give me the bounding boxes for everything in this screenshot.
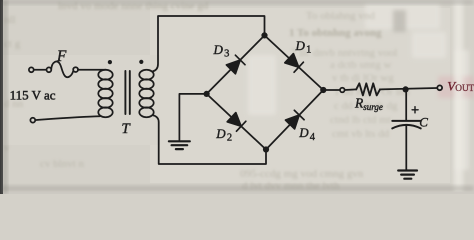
- wire bottom terminal to primary: [35, 116, 100, 120]
- diode D4: [286, 110, 305, 129]
- bleed-through text texture: [248, 3, 469, 170]
- wire bridge right node to terminal: [323, 89, 340, 91]
- plus sign: [412, 107, 418, 113]
- input terminal bottom: [30, 118, 35, 123]
- left dark scan edge: [0, 0, 3, 194]
- svg-text:095-ccdg mg vod cmng gvn: 095-ccdg mg vod cmng gvn: [240, 168, 364, 180]
- fuse F right terminal: [73, 67, 78, 72]
- bridge wires: [207, 35, 324, 149]
- output terminal Vout: [437, 85, 442, 90]
- wire bridge left node to ground: [179, 94, 204, 140]
- wire to resistor: [345, 88, 357, 91]
- ground (capacitor): [398, 171, 417, 179]
- phasing dot primary: [108, 60, 112, 64]
- transformer core: [125, 71, 129, 114]
- pink smudge near Vout: [438, 76, 474, 98]
- transformer T secondary winding: [139, 70, 153, 117]
- node top (bridge AC input): [261, 32, 267, 38]
- wire secondary bottom to bridge bottom: [153, 115, 267, 164]
- right light band: [454, 0, 463, 194]
- bottom edge band: [0, 186, 474, 191]
- svg-text:ctnd lb ctd mt: ctnd lb ctd mt: [330, 114, 391, 126]
- svg-text:v tb di lOr wg: v tb di lOr wg: [332, 72, 394, 84]
- fuse F left terminal: [47, 67, 52, 72]
- svg-text:C: C: [419, 114, 428, 129]
- top edge band: [0, 0, 474, 4]
- node right (bridge positive): [320, 87, 326, 93]
- diode D3: [226, 55, 245, 74]
- capacitor C top plate: [392, 120, 420, 122]
- wire fuse to transformer primary: [78, 69, 106, 71]
- svg-text:cv blnvt n: cv blnvt n: [40, 158, 84, 170]
- diode D2: [227, 113, 246, 132]
- diode D1: [285, 54, 304, 73]
- wire secondary top to bridge top: [153, 16, 265, 72]
- capacitor top lead: [405, 89, 407, 120]
- ground (bridge): [169, 141, 190, 149]
- svg-text:115 V ac: 115 V ac: [10, 87, 56, 102]
- wire: [34, 69, 46, 71]
- terminal circle before Rsurge: [340, 88, 345, 93]
- svg-text:F: F: [56, 48, 67, 65]
- resistor Rsurge: [356, 83, 380, 95]
- capacitor bottom lead: [405, 126, 407, 170]
- node at capacitor junction: [403, 86, 409, 92]
- node left (bridge negative): [204, 91, 210, 97]
- capacitor C curved plate: [392, 125, 420, 129]
- phasing dot secondary: [139, 60, 143, 64]
- svg-text:a dctb smtg w: a dctb smtg w: [330, 59, 391, 71]
- wire resistor to output: [380, 88, 437, 89]
- svg-text:cmt vb lts dd: cmt vb lts dd: [332, 128, 390, 140]
- svg-text:To oblahng vnd: To oblahng vnd: [306, 10, 375, 22]
- transformer T primary winding: [98, 70, 112, 117]
- input terminal top: [29, 67, 34, 72]
- fuse F element: [51, 61, 73, 77]
- node bottom (bridge AC input): [263, 146, 269, 152]
